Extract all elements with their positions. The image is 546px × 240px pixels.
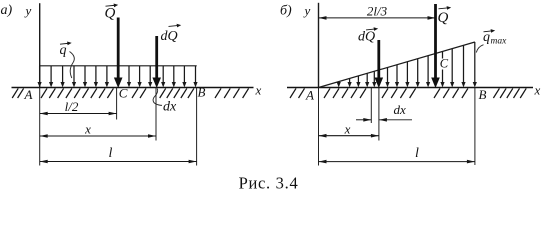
ground hatch Q to B (right diagram) bbox=[434, 88, 468, 98]
svg-text:Q: Q bbox=[438, 10, 449, 26]
svg-text:max: max bbox=[491, 37, 508, 47]
leader curve from q max label to load top (right) bbox=[476, 45, 483, 53]
extension line at A below ground (left) bbox=[39, 88, 41, 166]
svg-text:A: A bbox=[24, 87, 33, 102]
svg-text:dQ: dQ bbox=[161, 29, 178, 44]
vector hat over Q (left) bbox=[106, 4, 119, 8]
svg-text:Рис. 3.4: Рис. 3.4 bbox=[239, 174, 299, 193]
extension line at B below ground (left) bbox=[196, 88, 198, 166]
distributed load arrow 5 (left diagram) bbox=[83, 66, 87, 88]
svg-text:Q: Q bbox=[105, 6, 116, 22]
ground hatch A to strip (right diagram) bbox=[324, 88, 366, 98]
resultant force Q arrow (left diagram) bbox=[114, 18, 123, 89]
ground hatch C to dx (left diagram) bbox=[132, 88, 146, 98]
ground hatch left of A (right diagram) bbox=[290, 88, 305, 98]
svg-text:l/2: l/2 bbox=[65, 99, 79, 114]
dimension x (right) bbox=[319, 134, 379, 138]
svg-text:x: x bbox=[84, 122, 91, 137]
distributed load arrow 3 (left diagram) bbox=[61, 66, 65, 88]
dimension x (left) bbox=[40, 134, 156, 138]
ground hatch A to C (left diagram) bbox=[41, 88, 113, 98]
distributed load arrow 14 (right diagram) bbox=[473, 42, 477, 87]
dx dimension right segment (right) bbox=[379, 118, 412, 122]
svg-text:C: C bbox=[119, 86, 128, 101]
load top line (left diagram) bbox=[40, 65, 197, 67]
svg-text:y: y bbox=[24, 3, 32, 18]
ground hatch right of B (right diagram) bbox=[493, 88, 526, 98]
dx dimension left segment (right) bbox=[356, 118, 371, 122]
svg-text:l: l bbox=[415, 146, 419, 161]
distributed load arrow 8 (left diagram) bbox=[127, 66, 131, 88]
distributed load arrow 1 (right diagram) bbox=[337, 82, 341, 88]
leader curve from q label to load (left) bbox=[70, 52, 75, 79]
svg-text:а): а) bbox=[1, 3, 13, 18]
distributed load arrow 6 (left diagram) bbox=[94, 66, 98, 88]
extension line at B below ground (right) bbox=[474, 88, 476, 166]
distributed load arrow 1 (left diagram) bbox=[38, 66, 42, 88]
distributed load arrow 13 (right diagram) bbox=[461, 45, 465, 87]
svg-text:dQ: dQ bbox=[358, 29, 375, 44]
extension line at dQ below ground (left) bbox=[155, 88, 157, 141]
triangular load slant line (right diagram) bbox=[319, 42, 475, 88]
svg-text:l: l bbox=[109, 146, 113, 161]
distributed load arrow 12 (right diagram) bbox=[450, 49, 454, 88]
svg-text:q: q bbox=[483, 30, 490, 45]
dimension l/2 (left) bbox=[40, 112, 117, 116]
distributed load arrow 7 (left diagram) bbox=[105, 66, 109, 88]
svg-text:A: A bbox=[305, 88, 314, 103]
strip right boundary / x extension below ground (right) bbox=[378, 88, 380, 141]
vector hat over dQ (right) bbox=[366, 27, 378, 31]
distributed load arrow 10 (right diagram) bbox=[426, 56, 430, 88]
leader curve from dx label to strip (left) bbox=[153, 89, 162, 106]
strip left boundary below ground (right) bbox=[370, 88, 372, 124]
distributed load arrow 8 (right diagram) bbox=[405, 62, 409, 88]
ground hatch left of A (left diagram) bbox=[12, 88, 23, 98]
svg-text:x: x bbox=[255, 83, 262, 98]
ground line (right x axis) bbox=[287, 87, 533, 89]
elementary force dQ arrow (right diagram) bbox=[375, 40, 384, 88]
distributed load arrow 12 (left diagram) bbox=[172, 66, 176, 88]
dimension 2l/3 (right) bbox=[319, 16, 436, 20]
svg-text:2l/3: 2l/3 bbox=[367, 4, 388, 19]
vector hat over q max (right) bbox=[484, 29, 496, 33]
vector hat over Q (right) bbox=[439, 6, 452, 10]
distributed load arrow 7 (right diagram) bbox=[395, 65, 399, 88]
svg-text:x: x bbox=[344, 122, 351, 137]
distributed load arrow 2 (right diagram) bbox=[348, 78, 352, 87]
ground line (left x axis) bbox=[12, 87, 254, 89]
ground hatch strip to Q (right diagram) bbox=[382, 88, 416, 98]
svg-text:y: y bbox=[303, 3, 311, 18]
distributed load arrow 9 (right diagram) bbox=[416, 59, 420, 88]
vector hat over dQ (left) bbox=[169, 24, 182, 28]
svg-text:B: B bbox=[198, 85, 206, 100]
ground hatch right of B (left diagram) bbox=[215, 88, 249, 98]
svg-text:dx: dx bbox=[394, 102, 407, 117]
distributed load arrow 14 (left diagram) bbox=[193, 66, 197, 88]
elementary force dQ arrow (left diagram) bbox=[152, 36, 161, 88]
distributed load arrow 10 (left diagram) bbox=[148, 66, 152, 88]
distributed load arrow 4 (right diagram) bbox=[365, 73, 369, 87]
extension line at A below ground (right) bbox=[318, 88, 320, 166]
dimension l (right) bbox=[319, 160, 475, 164]
svg-text:C: C bbox=[440, 57, 449, 71]
svg-text:x: x bbox=[534, 83, 541, 98]
dimension l (left) bbox=[40, 160, 197, 164]
ground hatch dx to B (left diagram) bbox=[160, 88, 194, 98]
y axis line (left) bbox=[39, 3, 41, 87]
svg-text:q: q bbox=[60, 43, 67, 58]
extension line at C below ground (left) bbox=[116, 88, 118, 120]
distributed load arrow 11 broken by C label (right diagram) bbox=[440, 51, 444, 87]
distributed load arrow 4 (left diagram) bbox=[72, 66, 76, 88]
svg-text:dx: dx bbox=[163, 100, 177, 115]
distributed load arrow 11 (left diagram) bbox=[161, 66, 165, 88]
svg-text:B: B bbox=[479, 87, 487, 102]
vector hat over q (left) bbox=[60, 42, 72, 46]
y axis line (right) bbox=[318, 3, 320, 88]
distributed load arrow 2 (left diagram) bbox=[49, 66, 53, 88]
distributed load arrow 13 (left diagram) bbox=[182, 66, 186, 88]
distributed load arrow 9 (left diagram) bbox=[138, 66, 142, 88]
svg-text:б): б) bbox=[280, 4, 292, 19]
distributed load arrow 5 (right diagram) bbox=[372, 71, 376, 87]
distributed load arrow 6 (right diagram) bbox=[385, 67, 389, 87]
distributed load arrow 3 (right diagram) bbox=[356, 76, 360, 88]
resultant force Q arrow (right diagram) bbox=[431, 4, 440, 88]
